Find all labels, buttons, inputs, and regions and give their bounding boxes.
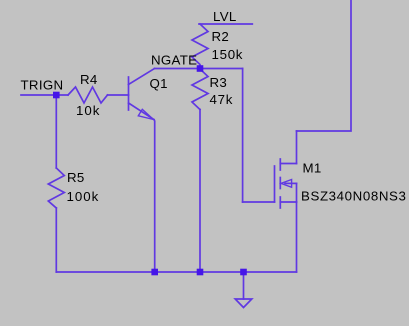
transistor Q1 <box>129 69 155 120</box>
resistor R4 <box>68 87 108 103</box>
svg-text:NGATE: NGATE <box>151 52 197 67</box>
svg-text:47k: 47k <box>210 92 234 107</box>
svg-text:10k: 10k <box>76 103 100 118</box>
wire TRIGN <box>21 94 68 96</box>
wire R4 to Q1 base <box>108 94 129 96</box>
wire M1 source to rail <box>296 202 298 272</box>
svg-text:TRIGN: TRIGN <box>21 78 64 93</box>
wire R3 bottom to rail <box>199 110 201 273</box>
resistor R3 <box>192 69 208 110</box>
resistor R2 <box>192 24 208 69</box>
svg-text:Q1: Q1 <box>150 76 168 91</box>
svg-text:R5: R5 <box>67 170 85 185</box>
junction ground/rail <box>240 269 247 276</box>
svg-text:150k: 150k <box>212 47 244 62</box>
svg-text:BSZ340N08NS3: BSZ340N08NS3 <box>301 188 407 203</box>
svg-text:R4: R4 <box>80 72 98 87</box>
wire drain down <box>296 131 298 164</box>
wire TRIGN junction down to R5 <box>55 95 57 168</box>
wire R5 bottom to rail <box>55 208 57 272</box>
junction TRIGN/R5 <box>53 92 60 99</box>
wire NGATE horizontal <box>155 68 243 70</box>
wire ground stem <box>243 272 245 299</box>
wire NGATE to gate vertical <box>242 69 244 203</box>
junction NGATE/R2/R3 <box>197 65 204 72</box>
wire bottom rail <box>56 271 296 273</box>
mosfet M1 <box>275 159 297 208</box>
svg-text:100k: 100k <box>67 189 100 204</box>
svg-text:R3: R3 <box>210 75 228 90</box>
wire Q1 emitter to rail <box>153 120 156 272</box>
svg-text:LVL: LVL <box>213 9 237 24</box>
junction R3/rail <box>197 269 204 276</box>
svg-text:M1: M1 <box>303 160 322 175</box>
resistor R5 <box>48 168 64 208</box>
ground <box>235 299 252 308</box>
net label LVL wire <box>199 23 252 25</box>
wire gate lead <box>243 201 275 203</box>
junction emitter/rail <box>151 269 158 276</box>
wire top drain vertical <box>297 0 352 131</box>
svg-text:R2: R2 <box>212 29 230 44</box>
